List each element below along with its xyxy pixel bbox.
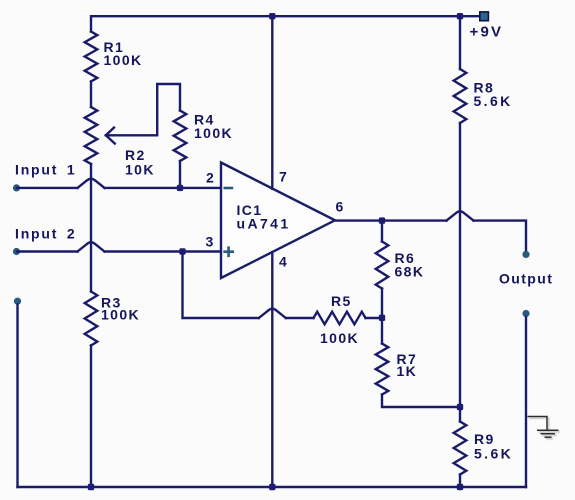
node: feedback joins pin3 wire — [179, 248, 185, 254]
wire output lower terminal to ground rail — [525, 317, 527, 487]
output wire from pin 6 — [335, 219, 447, 221]
node: pin7 line joins +9V rail — [269, 13, 275, 19]
svg-text:2: 2 — [206, 170, 215, 186]
resistor R1 — [85, 32, 98, 82]
svg-text:5.6K: 5.6K — [474, 446, 513, 462]
svg-text:6: 6 — [336, 199, 345, 215]
wire R1 to R2 — [90, 82, 92, 108]
ground symbol — [528, 417, 559, 438]
svg-text:100K: 100K — [101, 307, 140, 323]
svg-text:100K: 100K — [104, 52, 143, 68]
node: R6 joins output wire — [379, 217, 385, 223]
svg-text:+9V: +9V — [470, 24, 504, 41]
wire R7 to R8/R9 junction — [382, 395, 460, 408]
pin 4 line — [271, 252, 273, 487]
resistor R5 — [314, 312, 366, 325]
svg-text:100K: 100K — [194, 125, 233, 141]
inverting input marker — [224, 187, 234, 190]
non-inverting input marker — [223, 246, 234, 257]
svg-text:3: 3 — [206, 234, 215, 250]
svg-text:1K: 1K — [397, 363, 418, 379]
svg-text:5.6K: 5.6K — [474, 93, 513, 109]
svg-text:R5: R5 — [331, 293, 352, 309]
svg-text:100K: 100K — [320, 330, 359, 346]
R6 column — [381, 221, 383, 242]
bottom ground rail — [18, 486, 527, 488]
wire R8 down to R9 junction — [459, 123, 461, 407]
svg-text:Input 2: Input 2 — [15, 225, 76, 241]
wire R3 to ground rail — [90, 346, 92, 488]
node: R5/R6/R7 junction — [379, 315, 385, 321]
svg-text:68K: 68K — [395, 263, 425, 279]
resistor R3 — [85, 292, 98, 346]
Output upper terminal — [522, 251, 529, 258]
+9V battery terminal — [480, 12, 489, 21]
svg-text:Input 1: Input 1 — [15, 162, 76, 178]
Input 1 terminal — [13, 184, 20, 191]
node: R7/R8/R9 junction — [457, 404, 463, 410]
R2 wiper arrow — [106, 128, 115, 144]
left common terminal — [14, 298, 21, 305]
svg-text:4: 4 — [279, 254, 288, 270]
R8 column — [459, 16, 461, 69]
node: pin4 line joins ground rail — [269, 484, 275, 490]
svg-text:10K: 10K — [125, 162, 155, 178]
wire wiper to R4 — [106, 84, 180, 135]
resistor R4 — [174, 111, 187, 162]
resistor R6 — [376, 242, 389, 289]
node: R8 joins +9V rail — [457, 13, 463, 19]
feedback wire from pin3 node — [183, 252, 259, 319]
Output lower terminal — [522, 310, 529, 317]
svg-text:uA741: uA741 — [237, 216, 291, 232]
resistor R9 — [459, 407, 461, 422]
divider column R2 to R3 — [90, 164, 92, 292]
pin 7 line — [271, 16, 273, 189]
node: R4 joins pin2 wire — [177, 185, 183, 191]
node: R9 joins ground rail — [457, 484, 463, 490]
Input 1 wire with hop over divider — [17, 187, 78, 189]
resistor R7 — [381, 318, 383, 344]
node: R3 joins ground rail — [88, 484, 94, 490]
svg-text:7: 7 — [279, 169, 288, 185]
top +9V rail — [91, 16, 480, 31]
op-amp IC1 uA741 — [221, 163, 335, 279]
potentiometer R2 — [85, 107, 98, 164]
resistor R8 — [454, 69, 467, 123]
wire R4 to pin2 wire — [179, 161, 181, 188]
wire left terminal down to ground rail — [16, 305, 18, 488]
Input 2 terminal — [13, 248, 20, 255]
svg-text:Output: Output — [499, 271, 553, 287]
Input 2 wire with hop over divider — [17, 250, 78, 252]
